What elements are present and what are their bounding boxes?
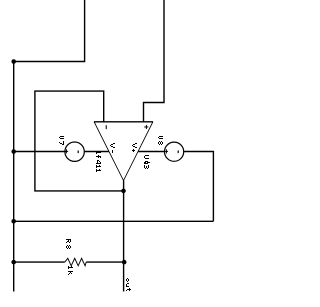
label R8 bbox=[66, 239, 71, 249]
wire resistor right lead bbox=[86, 261, 124, 263]
V7 plus marker bbox=[64, 151, 68, 152]
junction node output / resistor bbox=[122, 260, 127, 265]
label U?3 bbox=[144, 155, 150, 169]
wire V8 right down to bottom bus bbox=[184, 152, 214, 222]
V7 minus marker bbox=[78, 151, 79, 154]
label V- bbox=[110, 143, 115, 153]
wire bottom bus bbox=[14, 220, 214, 222]
resistor R8 zigzag bbox=[65, 258, 86, 266]
op-amp U?3 triangle bbox=[94, 121, 153, 123]
junction node at rail top bbox=[11, 59, 16, 64]
wire top-left vertical bbox=[14, 0, 85, 62]
label V7 bbox=[59, 136, 64, 145]
junction node output / feedback bbox=[121, 189, 126, 194]
V8 plus marker bbox=[164, 151, 168, 152]
wire resistor left lead bbox=[14, 261, 65, 263]
label out bbox=[126, 278, 131, 291]
wire V7 to op-amp V- pin bbox=[84, 151, 108, 153]
voltage source V8 circle bbox=[165, 142, 184, 161]
V8 minus marker bbox=[178, 151, 179, 154]
wire V7 to rail bbox=[14, 151, 65, 153]
op-amp plus input marker bbox=[144, 126, 148, 129]
label V8 bbox=[158, 136, 163, 145]
wire inverting input to feedback box bbox=[35, 91, 124, 191]
label V+ bbox=[132, 143, 137, 152]
junction node rail / resistor bbox=[11, 260, 16, 265]
wire op-amp V+ pin to V8 bbox=[138, 151, 164, 153]
junction node rail / V7 wire bbox=[11, 149, 16, 154]
wire noninverting input from top bbox=[144, 0, 165, 122]
junction node rail / bottom bus bbox=[11, 219, 16, 224]
label lf411 bbox=[96, 151, 101, 172]
op-amp minus input marker bbox=[106, 125, 107, 129]
label 1k bbox=[68, 266, 73, 275]
wire left rail bbox=[13, 62, 15, 292]
voltage source V7 circle bbox=[65, 142, 84, 161]
wire output vertical bbox=[123, 181, 125, 292]
